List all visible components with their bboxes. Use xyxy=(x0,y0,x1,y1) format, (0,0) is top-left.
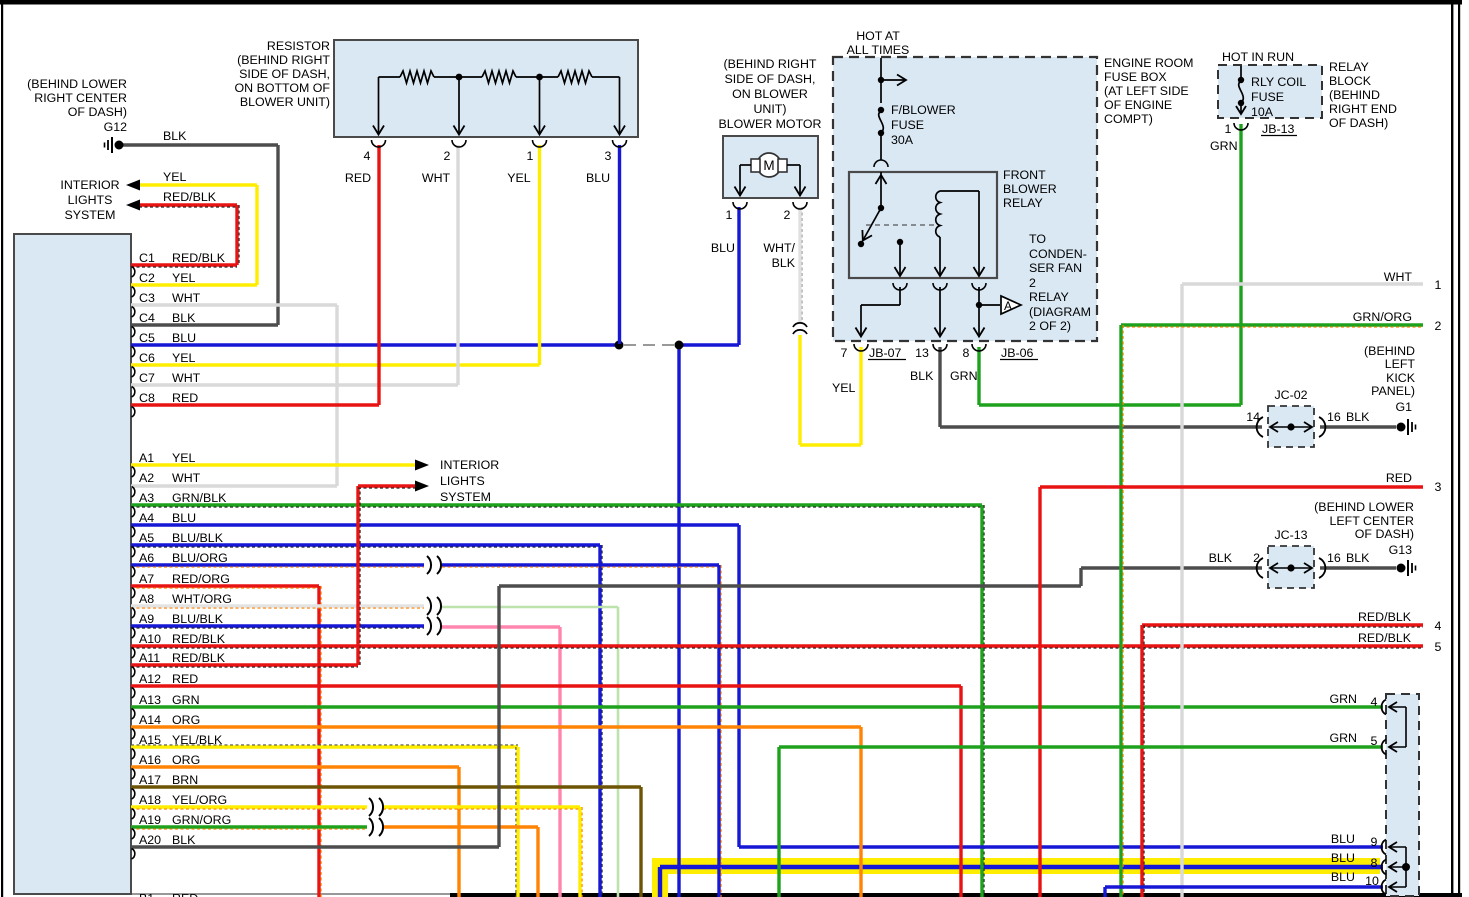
svg-text:A1: A1 xyxy=(139,451,154,465)
svg-text:INTERIOR: INTERIOR xyxy=(60,178,119,192)
svg-text:A: A xyxy=(1004,299,1012,313)
svg-text:LIGHTS: LIGHTS xyxy=(68,193,113,207)
svg-text:A3: A3 xyxy=(139,491,154,505)
svg-text:BLOWER MOTOR: BLOWER MOTOR xyxy=(718,117,821,131)
svg-text:RED/BLK: RED/BLK xyxy=(1358,610,1412,624)
svg-text:WHT: WHT xyxy=(422,171,451,185)
svg-text:YEL: YEL xyxy=(172,351,196,365)
svg-text:GRN: GRN xyxy=(1329,692,1357,706)
svg-text:16: 16 xyxy=(1327,551,1341,565)
svg-text:A14: A14 xyxy=(139,713,161,727)
svg-text:BLU: BLU xyxy=(172,511,196,525)
svg-text:G12: G12 xyxy=(104,120,128,134)
svg-text:4: 4 xyxy=(364,149,371,163)
svg-text:G13: G13 xyxy=(1389,543,1413,557)
svg-text:OF ENGINE: OF ENGINE xyxy=(1104,98,1172,112)
svg-text:LIGHTS: LIGHTS xyxy=(440,474,485,488)
svg-text:RLY COIL: RLY COIL xyxy=(1251,75,1306,89)
svg-text:A19: A19 xyxy=(139,813,161,827)
svg-text:A8: A8 xyxy=(139,592,154,606)
svg-text:A5: A5 xyxy=(139,531,154,545)
svg-text:14: 14 xyxy=(1246,410,1260,424)
svg-text:8: 8 xyxy=(1371,856,1378,870)
svg-text:RIGHT CENTER: RIGHT CENTER xyxy=(34,91,127,105)
svg-text:C1: C1 xyxy=(139,251,155,265)
svg-text:BLOWER UNIT): BLOWER UNIT) xyxy=(240,95,330,109)
svg-text:JB-07: JB-07 xyxy=(869,346,901,360)
svg-text:WHT: WHT xyxy=(172,291,201,305)
svg-text:A9: A9 xyxy=(139,612,154,626)
svg-text:BLK: BLK xyxy=(1346,551,1370,565)
svg-text:A6: A6 xyxy=(139,551,154,565)
svg-text:SIDE OF DASH,: SIDE OF DASH, xyxy=(239,67,330,81)
svg-text:YEL: YEL xyxy=(172,271,196,285)
svg-text:A18: A18 xyxy=(139,793,161,807)
svg-text:YEL: YEL xyxy=(832,381,856,395)
svg-text:INTERIOR: INTERIOR xyxy=(440,458,499,472)
svg-text:C8: C8 xyxy=(139,391,155,405)
svg-text:1: 1 xyxy=(726,208,733,222)
svg-text:BLOWER: BLOWER xyxy=(1003,182,1057,196)
svg-text:ORG: ORG xyxy=(172,713,200,727)
svg-text:2 OF 2): 2 OF 2) xyxy=(1029,319,1071,333)
svg-text:RED/BLK: RED/BLK xyxy=(172,632,226,646)
svg-text:5: 5 xyxy=(1435,640,1442,654)
svg-text:KICK: KICK xyxy=(1386,371,1416,385)
svg-text:JB-13: JB-13 xyxy=(1262,122,1294,136)
svg-text:SER FAN: SER FAN xyxy=(1029,261,1082,275)
svg-text:BLOCK: BLOCK xyxy=(1329,74,1372,88)
svg-text:YEL: YEL xyxy=(507,171,531,185)
svg-text:A11: A11 xyxy=(139,651,160,665)
svg-text:RED/BLK: RED/BLK xyxy=(172,651,226,665)
svg-text:RED/BLK: RED/BLK xyxy=(163,190,217,204)
svg-text:ON BOTTOM OF: ON BOTTOM OF xyxy=(235,81,331,95)
svg-text:1: 1 xyxy=(1435,278,1442,292)
svg-text:YEL/ORG: YEL/ORG xyxy=(172,793,227,807)
svg-text:BLK: BLK xyxy=(772,256,796,270)
svg-text:G1: G1 xyxy=(1395,400,1412,414)
svg-text:CONDEN-: CONDEN- xyxy=(1029,247,1087,261)
svg-text:RED: RED xyxy=(345,171,371,185)
svg-text:SYSTEM: SYSTEM xyxy=(65,208,116,222)
svg-text:8: 8 xyxy=(963,346,970,360)
svg-text:C2: C2 xyxy=(139,271,155,285)
svg-text:RED: RED xyxy=(172,672,198,686)
svg-text:2: 2 xyxy=(444,149,451,163)
svg-text:A16: A16 xyxy=(139,753,161,767)
svg-text:YEL: YEL xyxy=(163,170,187,184)
svg-text:OF DASH): OF DASH) xyxy=(1329,116,1388,130)
svg-text:WHT: WHT xyxy=(1384,270,1413,284)
svg-text:ORG: ORG xyxy=(172,753,200,767)
svg-text:RED: RED xyxy=(172,391,198,405)
svg-text:2: 2 xyxy=(784,208,791,222)
svg-text:OF DASH): OF DASH) xyxy=(68,105,127,119)
svg-text:A15: A15 xyxy=(139,733,161,747)
svg-text:BLK: BLK xyxy=(172,833,196,847)
svg-text:FUSE: FUSE xyxy=(891,118,924,132)
svg-text:9: 9 xyxy=(1371,835,1378,849)
svg-text:C3: C3 xyxy=(139,291,155,305)
svg-text:(BEHIND: (BEHIND xyxy=(1329,88,1380,102)
svg-text:(BEHIND LOWER: (BEHIND LOWER xyxy=(27,77,127,91)
svg-text:4: 4 xyxy=(1435,619,1442,633)
svg-text:1: 1 xyxy=(1225,122,1232,136)
svg-text:C6: C6 xyxy=(139,351,155,365)
svg-text:RED/BLK: RED/BLK xyxy=(172,251,226,265)
svg-text:GRN/ORG: GRN/ORG xyxy=(172,813,231,827)
svg-text:A20: A20 xyxy=(139,833,161,847)
svg-text:3: 3 xyxy=(1435,480,1442,494)
svg-text:RIGHT END: RIGHT END xyxy=(1329,102,1397,116)
svg-text:BLU: BLU xyxy=(586,171,610,185)
svg-text:(AT LEFT SIDE: (AT LEFT SIDE xyxy=(1104,84,1189,98)
svg-text:BRN: BRN xyxy=(172,773,198,787)
svg-text:GRN: GRN xyxy=(1210,139,1238,153)
svg-text:FUSE BOX: FUSE BOX xyxy=(1104,70,1167,84)
svg-text:BLU/ORG: BLU/ORG xyxy=(172,551,228,565)
svg-text:A13: A13 xyxy=(139,693,161,707)
svg-text:(BEHIND LOWER: (BEHIND LOWER xyxy=(1314,500,1414,514)
svg-text:HOT IN RUN: HOT IN RUN xyxy=(1222,50,1294,64)
svg-text:A17: A17 xyxy=(139,773,161,787)
svg-text:FUSE: FUSE xyxy=(1251,90,1284,104)
svg-text:JC-02: JC-02 xyxy=(1274,388,1307,402)
svg-text:1: 1 xyxy=(527,149,534,163)
svg-text:(BEHIND: (BEHIND xyxy=(1364,344,1415,358)
svg-text:ENGINE ROOM: ENGINE ROOM xyxy=(1104,56,1194,70)
svg-text:WHT: WHT xyxy=(172,371,201,385)
svg-text:10A: 10A xyxy=(1251,105,1274,119)
svg-text:BLK: BLK xyxy=(172,311,196,325)
svg-text:ON BLOWER: ON BLOWER xyxy=(732,87,808,101)
svg-text:WHT/ORG: WHT/ORG xyxy=(172,592,232,606)
svg-text:BLU: BLU xyxy=(1331,851,1355,865)
svg-text:2: 2 xyxy=(1253,551,1260,565)
svg-text:RELAY: RELAY xyxy=(1029,290,1069,304)
svg-text:7: 7 xyxy=(841,346,848,360)
svg-text:B1: B1 xyxy=(139,892,154,897)
svg-text:13: 13 xyxy=(915,346,929,360)
svg-text:OF DASH): OF DASH) xyxy=(1355,527,1414,541)
svg-text:LEFT CENTER: LEFT CENTER xyxy=(1330,514,1415,528)
svg-text:BLK: BLK xyxy=(1346,410,1370,424)
svg-text:BLK: BLK xyxy=(910,369,934,383)
svg-text:30A: 30A xyxy=(891,133,914,147)
svg-text:A7: A7 xyxy=(139,572,154,586)
svg-text:WHT/: WHT/ xyxy=(763,241,795,255)
svg-text:TO: TO xyxy=(1029,232,1046,246)
svg-text:RELAY: RELAY xyxy=(1329,60,1369,74)
svg-text:RED: RED xyxy=(172,892,198,897)
svg-text:BLU: BLU xyxy=(711,241,735,255)
svg-text:ALL TIMES: ALL TIMES xyxy=(847,43,910,57)
svg-text:SIDE OF DASH,: SIDE OF DASH, xyxy=(725,72,816,86)
svg-text:C4: C4 xyxy=(139,311,155,325)
svg-text:(BEHIND RIGHT: (BEHIND RIGHT xyxy=(237,53,330,67)
svg-text:UNIT): UNIT) xyxy=(753,102,786,116)
svg-text:RELAY: RELAY xyxy=(1003,196,1043,210)
svg-text:10: 10 xyxy=(1365,874,1379,888)
svg-text:C7: C7 xyxy=(139,371,155,385)
svg-text:BLU/BLK: BLU/BLK xyxy=(172,612,224,626)
svg-text:BLK: BLK xyxy=(1209,551,1233,565)
svg-text:M: M xyxy=(763,158,774,173)
svg-text:(DIAGRAM: (DIAGRAM xyxy=(1029,305,1091,319)
svg-text:16: 16 xyxy=(1327,410,1341,424)
svg-text:GRN: GRN xyxy=(172,693,200,707)
svg-text:RESISTOR: RESISTOR xyxy=(267,39,330,53)
svg-text:2: 2 xyxy=(1029,276,1036,290)
svg-text:JB-06: JB-06 xyxy=(1001,346,1033,360)
svg-text:GRN: GRN xyxy=(950,369,978,383)
svg-text:JC-13: JC-13 xyxy=(1274,528,1307,542)
svg-text:BLU: BLU xyxy=(1331,832,1355,846)
svg-text:(BEHIND RIGHT: (BEHIND RIGHT xyxy=(724,57,817,71)
svg-text:RED/BLK: RED/BLK xyxy=(1358,631,1412,645)
svg-text:A4: A4 xyxy=(139,511,154,525)
svg-text:GRN/BLK: GRN/BLK xyxy=(172,491,227,505)
svg-text:2: 2 xyxy=(1435,319,1442,333)
svg-text:RED/ORG: RED/ORG xyxy=(172,572,230,586)
svg-text:BLU: BLU xyxy=(1331,870,1355,884)
svg-text:3: 3 xyxy=(605,149,612,163)
svg-text:GRN/ORG: GRN/ORG xyxy=(1353,310,1412,324)
svg-text:C5: C5 xyxy=(139,331,155,345)
svg-text:RED: RED xyxy=(1386,471,1412,485)
svg-text:COMPT): COMPT) xyxy=(1104,112,1153,126)
svg-text:BLU/BLK: BLU/BLK xyxy=(172,531,224,545)
svg-text:GRN: GRN xyxy=(1329,731,1357,745)
svg-text:A2: A2 xyxy=(139,471,154,485)
svg-text:4: 4 xyxy=(1371,695,1378,709)
svg-text:BLU: BLU xyxy=(172,331,196,345)
svg-text:A12: A12 xyxy=(139,672,161,686)
svg-text:PANEL): PANEL) xyxy=(1371,384,1415,398)
svg-text:YEL: YEL xyxy=(172,451,196,465)
svg-text:HOT AT: HOT AT xyxy=(856,29,900,43)
svg-text:SYSTEM: SYSTEM xyxy=(440,490,491,504)
svg-text:YEL/BLK: YEL/BLK xyxy=(172,733,223,747)
svg-text:WHT: WHT xyxy=(172,471,201,485)
svg-text:5: 5 xyxy=(1371,734,1378,748)
svg-text:LEFT: LEFT xyxy=(1385,357,1416,371)
svg-text:A10: A10 xyxy=(139,632,161,646)
svg-text:F/BLOWER: F/BLOWER xyxy=(891,103,956,117)
svg-text:FRONT: FRONT xyxy=(1003,168,1046,182)
svg-text:BLK: BLK xyxy=(163,129,187,143)
